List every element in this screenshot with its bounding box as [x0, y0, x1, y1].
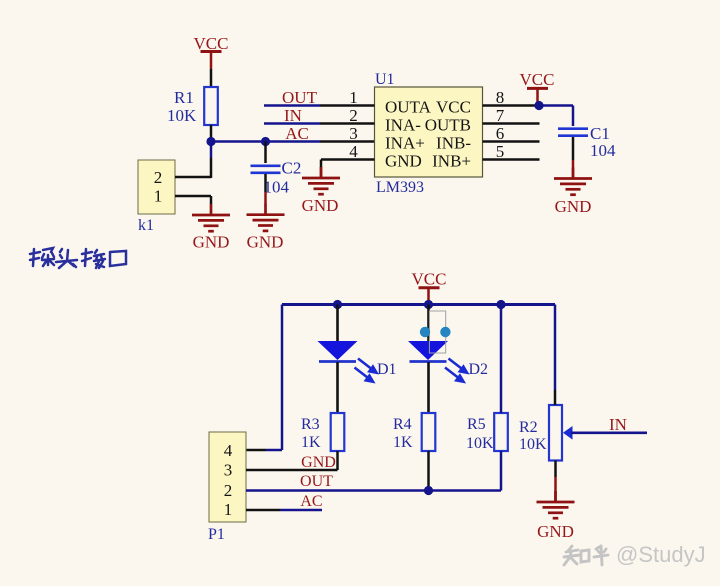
svg-text:8: 8 [496, 88, 505, 107]
svg-text:10K: 10K [466, 435, 494, 452]
wire VCC to R1 [210, 69, 213, 87]
node B (junction C2 on AC net) [261, 137, 270, 146]
node C (junction pin8/VCC/C1) [534, 101, 543, 110]
wire bus right riser to R2 [554, 305, 557, 406]
wire D2 to R4 [427, 362, 430, 413]
svg-text:INB-: INB- [436, 134, 471, 153]
svg-text:2: 2 [154, 168, 163, 187]
resistor R4 1K [393, 413, 435, 451]
wire R1 to node [210, 125, 213, 142]
wire k1 pin 1 to ground [175, 196, 211, 204]
svg-text:10K: 10K [167, 106, 197, 125]
wire bus to D2 [427, 305, 430, 342]
pin 6 wire [483, 124, 540, 143]
pin 2 wire (IN net) [264, 106, 375, 125]
node A (junction R1 / k1 / AC net) [206, 137, 215, 146]
wire C1 to ground [572, 137, 575, 179]
svg-text:6: 6 [496, 124, 505, 143]
resistor R1 [167, 87, 218, 125]
svg-text:2: 2 [349, 106, 358, 125]
svg-text:1K: 1K [393, 434, 413, 451]
wire node C to C1 [539, 106, 573, 127]
capacitor C1 104 [558, 124, 616, 160]
wire bus to R5 [500, 305, 503, 414]
svg-text:P1: P1 [208, 526, 225, 543]
svg-text:GND: GND [302, 196, 339, 215]
svg-text:GND: GND [555, 197, 592, 216]
svg-text:IN: IN [609, 415, 627, 434]
svg-text:5: 5 [496, 142, 505, 161]
svg-text:INB+: INB+ [432, 152, 471, 171]
svg-text:D1: D1 [377, 361, 397, 378]
svg-text:AC: AC [300, 493, 322, 510]
svg-text:OUTA: OUTA [385, 98, 432, 117]
svg-text:VCC: VCC [436, 98, 471, 117]
svg-text:GND: GND [537, 522, 574, 541]
connector P1 [208, 432, 246, 543]
wire bus to D1 [336, 305, 339, 342]
svg-text:104: 104 [590, 141, 616, 160]
svg-text:GND: GND [193, 233, 230, 252]
wire C2 to ground [264, 174, 267, 204]
wire D1 to R3 [336, 362, 339, 413]
ground (R2) [537, 491, 575, 541]
svg-text:IN: IN [284, 106, 302, 125]
emitter dot 1 (D2) [420, 327, 430, 337]
svg-text:1: 1 [349, 88, 358, 107]
svg-text:INA+: INA+ [385, 134, 425, 153]
svg-text:R5: R5 [467, 416, 486, 433]
wire R2 to ground [554, 461, 557, 503]
wire bus left riser to P1 pin 4 [246, 305, 282, 451]
connector k1 [138, 160, 175, 234]
node D (bus / D1) [333, 300, 342, 309]
wire node B to C2 [264, 142, 267, 164]
wire R4 bottom lead [427, 451, 430, 491]
svg-text:AC: AC [285, 124, 309, 143]
svg-text:k1: k1 [138, 217, 154, 234]
capacitor C2 104 [251, 159, 302, 197]
svg-text:104: 104 [264, 178, 290, 197]
wire R3 bottom lead [336, 451, 339, 470]
svg-text:3: 3 [349, 124, 358, 143]
node E (bus / VCC / D2) [424, 300, 433, 309]
svg-text:LM393: LM393 [376, 179, 424, 196]
op-amp U1 LM393 body [375, 71, 483, 196]
svg-text:4: 4 [349, 142, 358, 161]
power symbol VCC (LED bus) [412, 270, 447, 305]
LED D1 [318, 341, 397, 382]
wire VCC bus horizontal [282, 303, 555, 306]
potentiometer R2 10K [519, 405, 562, 461]
pin 5 wire [483, 142, 540, 161]
svg-text:@StudyJ: @StudyJ [616, 542, 706, 567]
ground (U1 pin 4) [302, 167, 340, 215]
node F (bus / R5) [496, 300, 505, 309]
pin 4 wire to ground [321, 142, 375, 178]
svg-text:10K: 10K [519, 436, 547, 453]
ground (k1 pin 1) [192, 204, 230, 252]
resistor R5 10K [466, 413, 508, 452]
ground (C2) [247, 204, 285, 252]
node G (R4 on OUT net) [424, 486, 433, 495]
svg-text:R1: R1 [174, 88, 194, 107]
wire P1 pin 2 to R4/R5 (OUT net) [246, 451, 501, 491]
power symbol VCC (net VCC, top left) [194, 34, 229, 69]
wire net AC horizontal [211, 140, 375, 143]
power symbol VCC (U1 pin 8) [520, 70, 555, 106]
svg-text:3: 3 [224, 461, 233, 480]
svg-text:OUTB: OUTB [425, 116, 471, 135]
svg-text:OUT: OUT [282, 88, 318, 107]
svg-text:INA-: INA- [385, 116, 421, 135]
pin 7 wire [483, 106, 540, 125]
svg-text:GND: GND [247, 233, 284, 252]
svg-text:R2: R2 [519, 419, 538, 436]
LED D2 [408, 341, 488, 382]
svg-text:GND: GND [385, 152, 422, 171]
svg-text:GND: GND [301, 454, 336, 471]
svg-text:C2: C2 [282, 159, 302, 178]
wiper arrow of R2 (IN net) [563, 426, 647, 440]
svg-text:7: 7 [496, 106, 505, 125]
ground (C1) [554, 168, 592, 217]
pin 8 wire [483, 88, 540, 107]
svg-text:U1: U1 [375, 71, 395, 88]
svg-text:1: 1 [154, 187, 163, 206]
wire P1 pin 3 to R3 (GND net) [246, 469, 338, 472]
svg-text:1K: 1K [301, 434, 321, 451]
svg-text:1: 1 [224, 500, 233, 519]
svg-text:VCC: VCC [412, 270, 447, 289]
svg-text:4: 4 [224, 441, 233, 460]
pin 1 wire (OUT net) [264, 88, 375, 107]
wire P1 pin 1 (AC net) [246, 509, 322, 512]
svg-text:R3: R3 [301, 416, 320, 433]
photointerrupter outline (D2) [429, 311, 445, 353]
svg-text:D2: D2 [469, 361, 489, 378]
svg-text:VCC: VCC [520, 70, 555, 89]
svg-text:OUT: OUT [300, 473, 333, 490]
label 探头接口 (probe interface) [30, 248, 126, 268]
watermark 知乎 @StudyJ [564, 542, 706, 567]
emitter dot 2 (D2) [440, 327, 450, 337]
svg-text:2: 2 [224, 481, 233, 500]
wire k1 pin 2 to node A [175, 142, 211, 179]
svg-text:R4: R4 [393, 416, 412, 433]
resistor R3 1K [301, 413, 344, 451]
